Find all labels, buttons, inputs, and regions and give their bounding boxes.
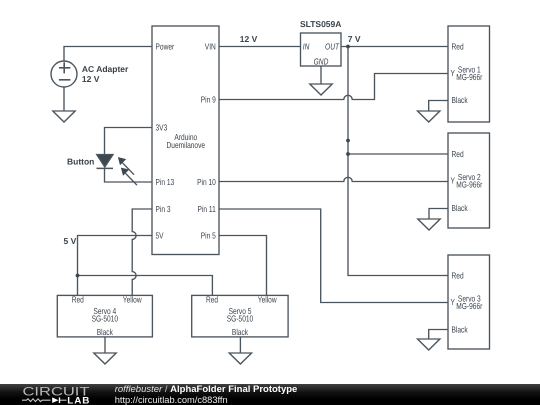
logo resistor [22,399,51,402]
wire Servo1 Black to ground [429,101,448,112]
wire 3V3 to photodiode [105,128,153,155]
servo M3 box [448,255,490,349]
svg-text:SG-5010: SG-5010 [227,313,254,323]
svg-text:5V: 5V [156,231,164,241]
wire Servo3 Black to ground [429,330,448,340]
ground GND5 [418,339,440,350]
CircuitLab logo [0,384,110,405]
svg-text:VIN: VIN [205,42,216,52]
svg-text:Black: Black [452,95,469,105]
svg-text:SG-5010: SG-5010 [92,313,119,323]
svg-text:Y: Y [451,175,456,185]
ground GND1 [53,111,75,122]
svg-text:Y: Y [451,297,456,307]
wire 7V rail to Servo2 Red [348,153,448,155]
svg-text:Red: Red [206,295,218,305]
wire VIN to regulator IN [219,46,301,48]
wire 7V rail vertical [348,47,448,276]
svg-text:MG-966r: MG-966r [456,179,482,189]
svg-text:MG-966r: MG-966r [456,301,482,311]
svg-text:Pin 3: Pin 3 [156,204,171,214]
svg-text:Duemilanove: Duemilanove [167,140,206,150]
svg-text:Power: Power [156,42,175,52]
svg-text:7 V: 7 V [348,34,361,44]
svg-text:OUT: OUT [325,42,339,52]
IC U1 Arduino Duemilanove box [152,26,219,255]
svg-text:Y: Y [451,68,456,78]
svg-text:MG-966r: MG-966r [456,72,482,82]
servo M5 box [192,295,288,337]
svg-text:Yellow: Yellow [123,295,142,305]
svg-text:3V3: 3V3 [156,123,168,133]
wire Pin 11 to Servo3 Yellow [219,209,448,303]
ground GND6 [94,353,116,364]
wire Pin 10 to Servo2 Yellow (hops 7V rail) [219,177,448,181]
ground GND3 [418,111,440,122]
junction node on 7V rail upper [346,139,350,143]
svg-text:IN: IN [303,42,310,52]
svg-text:12 V: 12 V [82,74,100,84]
ground GND4 [418,219,440,230]
svg-text:12 V: 12 V [240,34,258,44]
photodiode D1 (Button) [97,155,114,169]
arrow light 1 [118,157,134,175]
wire regulator GND [320,66,322,84]
servo M2 box [448,133,490,228]
svg-text:Pin 5: Pin 5 [201,231,216,241]
voltage regulator U2 SLTS059A box [301,33,342,66]
wire 5V to Servo4 Red, node 5V [78,236,153,296]
wire Servo4 Black to ground [104,337,106,353]
svg-text:AC Adapter: AC Adapter [82,64,129,74]
svg-text:LAB: LAB [67,395,90,405]
wire Pin 3 to Servo4 Yellow (hops 5V and Red rows) [132,209,152,295]
servo M4 box [57,295,152,337]
junction node 7V at regulator output [346,45,350,49]
svg-text:SLTS059A: SLTS059A [300,19,341,29]
servo M1 box [448,26,490,122]
svg-text:5 V: 5 V [64,236,77,246]
ground GND7 [229,353,251,364]
wire Servo2 Black to ground [429,209,448,220]
ground GND2 [310,84,332,95]
svg-text:GND: GND [314,56,329,66]
wire Servo5 Black to ground [239,337,241,353]
svg-text:Pin 13: Pin 13 [156,177,175,187]
svg-text:Red: Red [452,271,464,281]
svg-text:Black: Black [97,327,114,337]
footer bar [0,384,540,405]
wire V1 minus to ground [63,87,65,111]
wire regulator OUT to Servo1 Red, node 7V [341,46,448,48]
svg-text:Red: Red [452,149,464,159]
svg-text:Button: Button [67,157,94,167]
wire photodiode to Pin 13 [105,169,153,182]
wire 5V branch to Servo5 Red [78,276,213,296]
svg-text:Black: Black [452,325,469,335]
svg-text:Red: Red [452,42,464,52]
svg-text:Pin 11: Pin 11 [198,204,216,214]
svg-text:Black: Black [232,327,249,337]
svg-text:Black: Black [452,203,469,213]
svg-text:Red: Red [72,295,84,305]
svg-text:Yellow: Yellow [258,295,277,305]
wire Pin 9 to Servo1 Yellow (hops 7V rail) [219,74,448,100]
arrow light 2 [121,168,137,186]
wire Pin 5 to Servo5 Yellow [219,236,267,296]
svg-text:Pin 9: Pin 9 [201,95,216,105]
svg-text:Pin 10: Pin 10 [197,177,216,187]
wire V1 plus to Power [64,47,152,62]
junction node 5V rail at Servo5 Red branch [76,274,80,278]
voltage source V1 AC Adapter [51,61,77,87]
logo diode [52,397,58,403]
junction node on 7V rail at Servo2 Red [346,152,350,156]
